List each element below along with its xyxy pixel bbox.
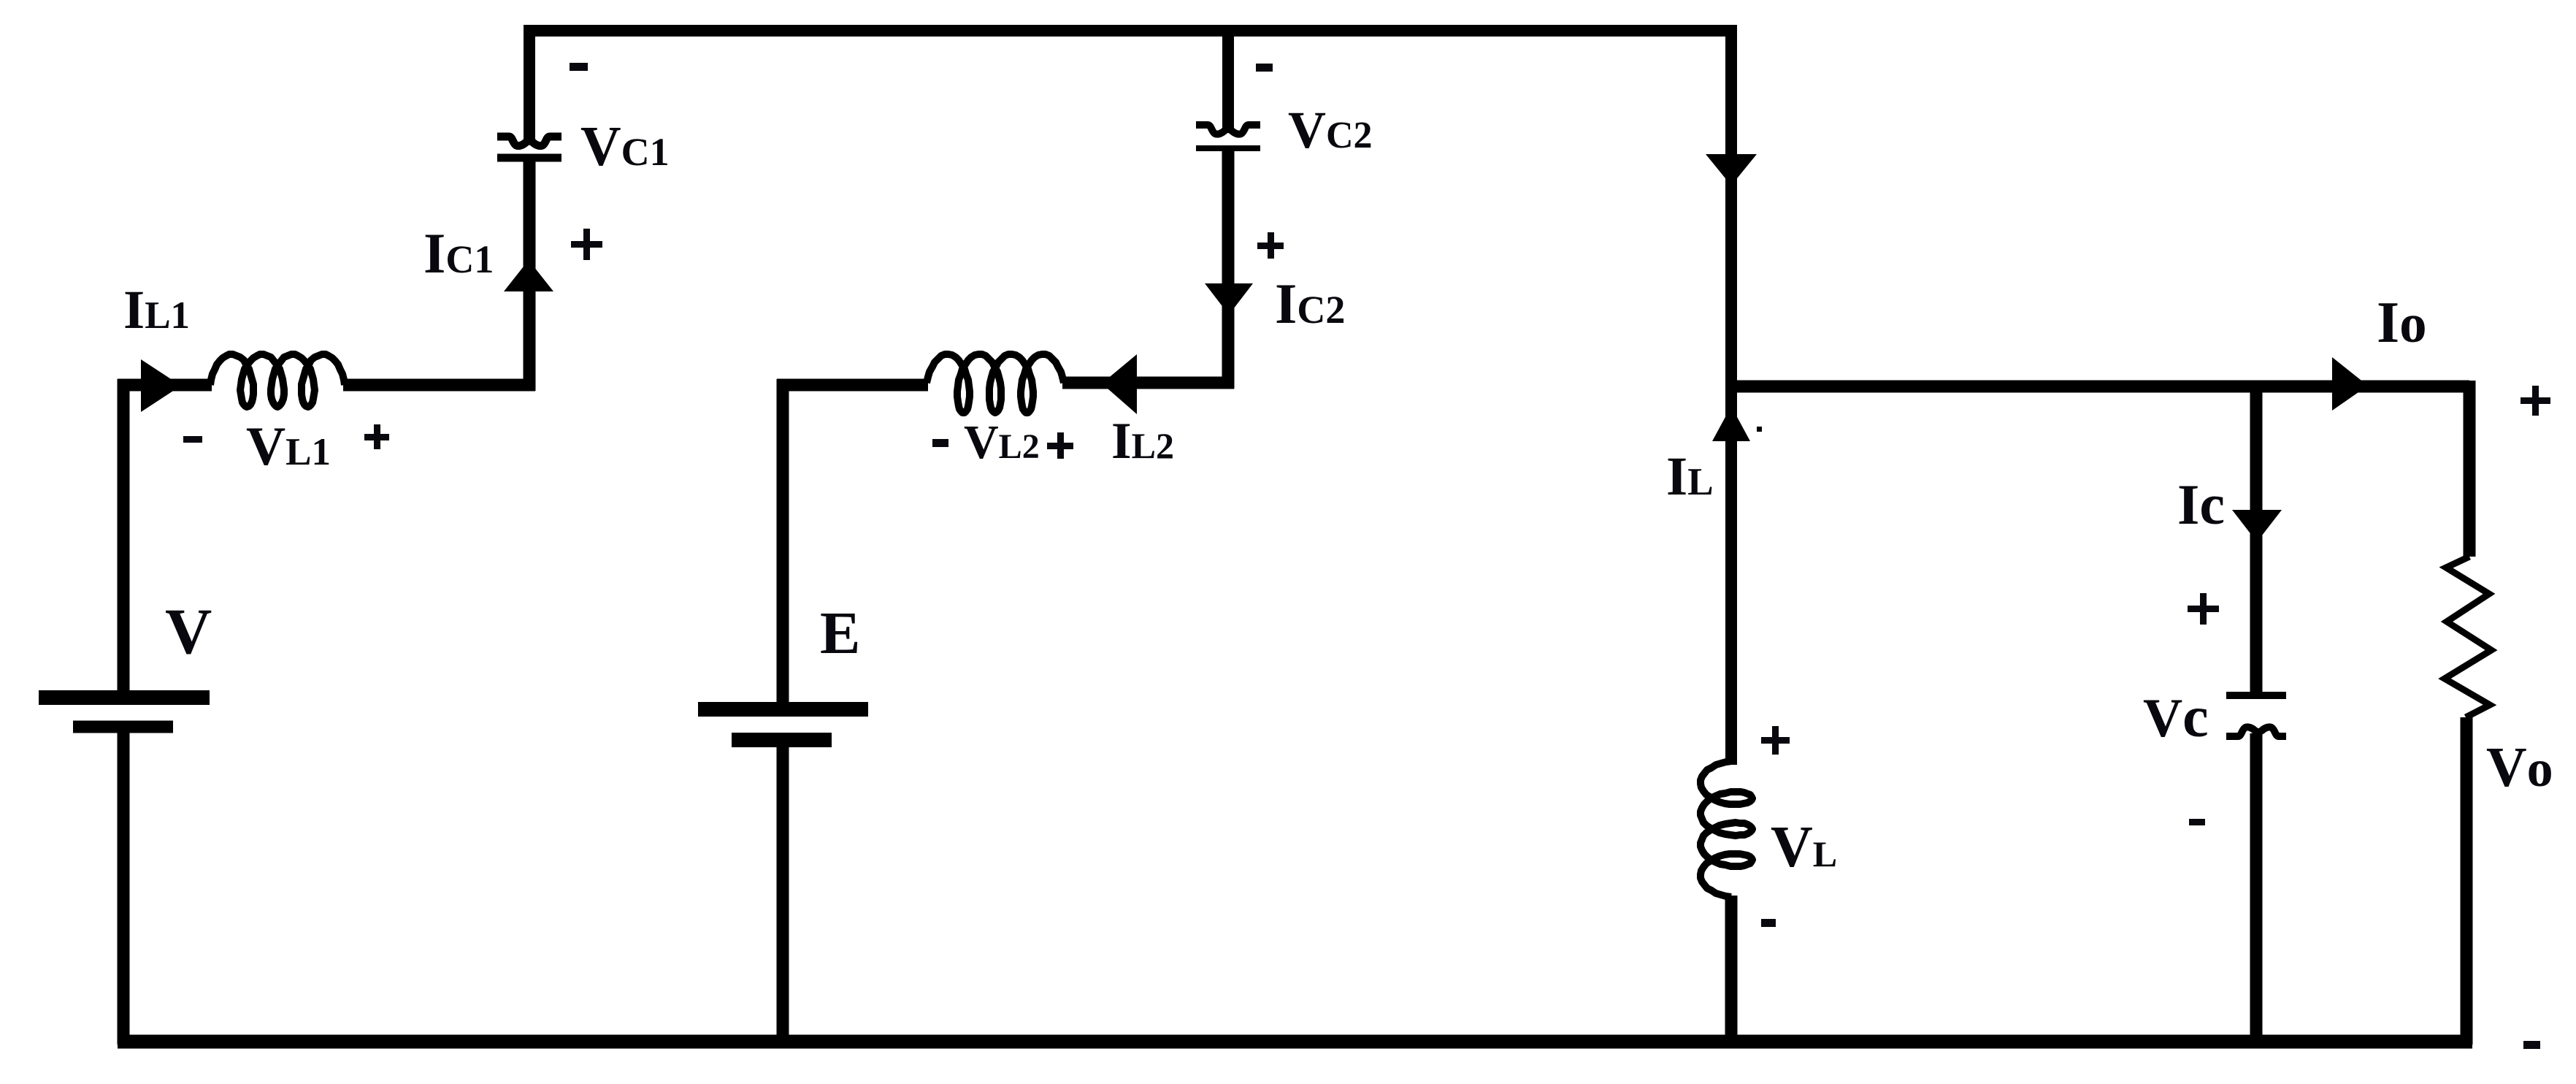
wire L2 coil to C2 corner [1062,377,1234,389]
wire E branch: corner at middle level to L2 coil [777,379,928,706]
arrow Ic current down [2232,510,2282,542]
svg-text:Vc: Vc [2143,685,2209,749]
wire C1 lower stub down to node at middle level [524,158,536,391]
label minus VL1 [183,436,202,443]
battery E long plate [698,702,868,717]
arrow Io current right [2332,357,2368,411]
label plus VC [2188,593,2219,625]
label minus VC [2189,819,2205,825]
arrow right-drop current down [1706,154,1757,186]
label plus output right [2521,386,2550,416]
node dot near IL arrow [1757,427,1762,432]
wire L1 coil to C1 corner [343,379,535,385]
wire top bus: C1 top stub + top wire + right drop to IL branch [529,31,1731,765]
wire right corner down to resistor [2464,381,2476,557]
capacitor C2 flat plate [1196,145,1260,151]
wire middle-right horizontal from IL node to right corner [1725,381,2469,393]
inductor L2 [927,354,1064,413]
arrow IL1 current right [141,359,181,412]
wire battery V to bottom bus [118,730,130,1045]
wire C2 lower stub to corner at middle level [1222,150,1228,389]
label plus IC2 [1257,232,1284,259]
label minus above C1 [570,63,588,71]
label minus VL2 [932,439,948,447]
inductor L1 [210,354,345,407]
resistor R load [2445,557,2491,717]
svg-text:Io: Io [2377,291,2427,355]
wire VL coil to bottom bus [1725,896,1738,1045]
wire resistor to bottom bus [2461,717,2473,1045]
wire battery E to bottom bus [777,742,789,1045]
label plus VL coil [1761,726,1790,755]
wire VC branch upper [2250,386,2263,694]
svg-text:Ic: Ic [2177,473,2225,536]
label plus VL1 [364,424,389,449]
battery V short plate [73,721,173,733]
svg-text:Vo: Vo [2486,736,2553,798]
battery E short plate [732,733,832,747]
battery V long plate [39,690,210,705]
wire VC branch lower to bottom bus [2250,733,2263,1045]
arrow IC2 current down [1205,283,1253,315]
svg-text:V: V [165,596,212,668]
wire left horizontal from left corner to L1 coil [118,379,212,392]
capacitor C1 curved plate [497,137,561,146]
arrow IL2 current left [1102,354,1137,414]
capacitor C (VC) flat plate [2226,692,2286,699]
wire bottom bus [118,1035,2472,1049]
arrow IL current up [1712,406,1750,441]
wire C2 vertical: top stub [1222,31,1234,131]
svg-text:E: E [820,599,860,666]
arrow IC1 current up [504,260,553,291]
capacitor C1 flat plate [497,154,561,162]
label minus above C2 [1256,64,1273,72]
label minus VL coil [1761,919,1776,927]
label minus bottom right [2523,1041,2540,1049]
label plus VL2 [1047,432,1073,459]
inductor L (VL) vertical coil [1701,761,1752,897]
capacitor C2 curved plate [1196,125,1260,134]
wire left vertical down to battery V [118,379,130,694]
label plus IC1 [571,229,602,260]
capacitor C (VC) curved plate [2226,727,2286,736]
